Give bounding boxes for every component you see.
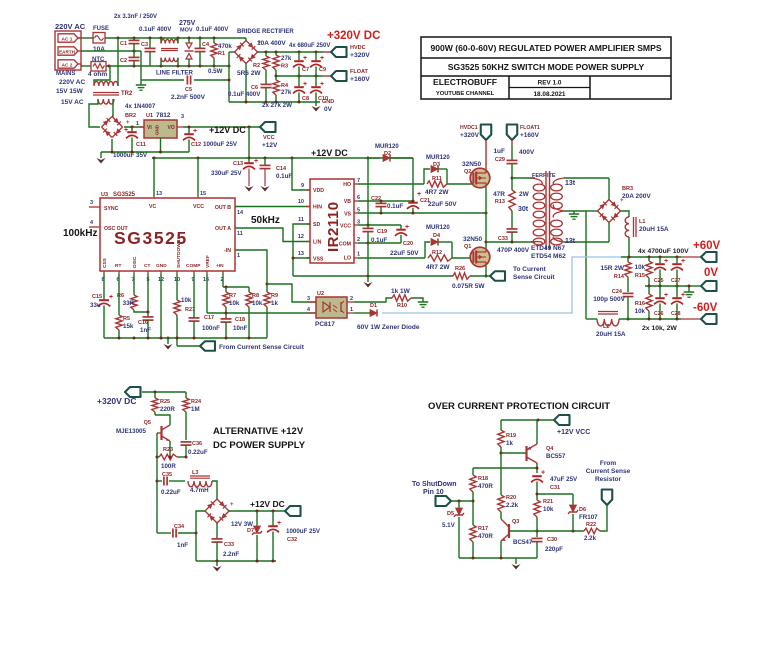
svg-text:+60V: +60V xyxy=(693,240,721,252)
svg-text:47uF 25V: 47uF 25V xyxy=(550,476,578,483)
resistor R9 1k xyxy=(266,283,269,286)
svg-text:D1: D1 xyxy=(370,303,377,309)
node pin 3 SYNC xyxy=(89,206,100,208)
wire to SG3525 VCC pin 15 xyxy=(197,158,199,196)
svg-text:+: + xyxy=(320,81,324,88)
svg-text:C12: C12 xyxy=(191,142,201,148)
svg-text:10: 10 xyxy=(298,199,304,205)
svg-text:+: + xyxy=(664,258,668,265)
svg-text:C20: C20 xyxy=(403,241,413,247)
wire VB rail xyxy=(358,200,413,202)
capacitor C19 0.1uF xyxy=(367,225,369,228)
wire feedback sense blue xyxy=(382,257,621,313)
svg-text:60V 1W Zener Diode: 60V 1W Zener Diode xyxy=(357,324,420,331)
connector FLOAT1 +160V top xyxy=(507,125,518,141)
svg-text:1uF: 1uF xyxy=(493,148,505,155)
svg-text:1000uF 35V: 1000uF 35V xyxy=(113,152,148,159)
wire BR4 bottom to C33a xyxy=(216,523,218,539)
svg-text:1k: 1k xyxy=(506,440,513,447)
wire primary bottom xyxy=(486,241,535,243)
capacitor C33 2.2nF alt xyxy=(212,538,223,540)
wire AC2 to NTC xyxy=(78,63,81,65)
svg-text:12V 3W: 12V 3W xyxy=(231,521,253,528)
svg-text:HVDC: HVDC xyxy=(350,45,366,51)
svg-text:C8: C8 xyxy=(302,96,309,102)
svg-text:OVER CURRENT PROTECTION CIRCUI: OVER CURRENT PROTECTION CIRCUIT xyxy=(428,401,610,412)
svg-text:PC817: PC817 xyxy=(315,321,335,328)
ground earth symbol xyxy=(136,84,146,86)
svg-text:+: + xyxy=(258,40,262,46)
wire BR2 output to 7812 xyxy=(124,126,144,128)
svg-text:20A 200V: 20A 200V xyxy=(622,193,651,200)
svg-text:R20: R20 xyxy=(506,495,516,501)
capacitor C10 680uF xyxy=(315,76,317,86)
svg-text:2.2k: 2.2k xyxy=(584,535,597,542)
wire +12V to IR2110 VDD xyxy=(292,158,310,190)
svg-text:R26: R26 xyxy=(455,266,465,272)
svg-text:1000uF 25V: 1000uF 25V xyxy=(286,528,321,535)
svg-text:D5: D5 xyxy=(447,511,454,517)
wire SG3525 ground rail xyxy=(104,337,267,339)
svg-text:R22: R22 xyxy=(586,522,596,528)
svg-text:R18: R18 xyxy=(478,476,488,482)
svg-text:VCC: VCC xyxy=(263,135,275,141)
capacitor C16 1nF pin5 xyxy=(147,271,149,274)
svg-text:FLOAT: FLOAT xyxy=(350,69,369,75)
inductor L2 20uH 15A xyxy=(586,318,597,320)
svg-text:VREF: VREF xyxy=(205,255,211,268)
svg-text:From Current Sense Circuit: From Current Sense Circuit xyxy=(219,344,305,351)
wire to Q1 gate xyxy=(452,257,474,259)
svg-text:Q5: Q5 xyxy=(144,420,151,426)
svg-text:MAINS: MAINS xyxy=(56,71,75,77)
svg-text:R9: R9 xyxy=(271,293,278,299)
svg-text:VC: VC xyxy=(149,204,156,210)
svg-text:C32: C32 xyxy=(287,537,297,543)
svg-text:20uH 15A: 20uH 15A xyxy=(596,331,626,338)
svg-text:U3: U3 xyxy=(101,192,108,198)
svg-text:R24: R24 xyxy=(191,399,202,405)
svg-text:0.075R 5W: 0.075R 5W xyxy=(452,283,485,290)
svg-text:R10: R10 xyxy=(397,303,407,309)
svg-text:0.1uF 400V: 0.1uF 400V xyxy=(139,26,172,33)
svg-text:C19: C19 xyxy=(377,229,387,235)
capacitor C31 47uF 25V xyxy=(532,475,542,477)
connector HVDC1 +320V top xyxy=(481,125,492,141)
capacitor C30 220pF xyxy=(532,537,543,539)
svg-text:To Current: To Current xyxy=(513,266,547,273)
svg-text:+: + xyxy=(664,292,668,299)
svg-text:LIN: LIN xyxy=(313,240,322,246)
ground arrow alt xyxy=(216,561,218,566)
svg-text:R19: R19 xyxy=(506,433,516,439)
svg-text:32N50: 32N50 xyxy=(462,161,482,168)
svg-text:CSS: CSS xyxy=(102,257,108,268)
resistor R20 2.2k xyxy=(498,495,504,512)
svg-text:3: 3 xyxy=(181,114,184,120)
resistor R24 1M xyxy=(185,392,187,398)
svg-text:220V AC: 220V AC xyxy=(59,79,85,86)
wire shutdown to divider xyxy=(451,500,473,502)
svg-text:FUSE: FUSE xyxy=(93,26,109,32)
capacitor C15 33u pin8 xyxy=(103,271,105,274)
svg-text:1: 1 xyxy=(237,253,240,259)
svg-text:13t: 13t xyxy=(565,238,576,245)
svg-text:VDD: VDD xyxy=(313,188,324,194)
svg-text:C33: C33 xyxy=(498,236,508,242)
svg-text:BR2: BR2 xyxy=(125,113,136,119)
capacitor C7 680uF xyxy=(298,52,300,60)
svg-text:C1: C1 xyxy=(120,41,127,47)
wire OCP bottom rail xyxy=(459,557,537,559)
connector 0V output xyxy=(701,281,717,291)
connector +320V DC alt input xyxy=(125,387,141,397)
resistor R8 10k xyxy=(248,287,250,292)
svg-text:9: 9 xyxy=(301,183,304,189)
svg-text:R13: R13 xyxy=(495,199,505,205)
svg-text:REV 1.0: REV 1.0 xyxy=(538,80,562,87)
svg-text:0.1uF 400V: 0.1uF 400V xyxy=(196,26,229,33)
svg-text:7812: 7812 xyxy=(156,112,171,119)
svg-text:0.1uF: 0.1uF xyxy=(276,173,292,180)
wire +12V to VCC xyxy=(367,158,369,225)
svg-text:13t: 13t xyxy=(565,180,576,187)
svg-text:C4: C4 xyxy=(202,42,210,48)
svg-text:R14: R14 xyxy=(614,274,625,280)
svg-text:C16: C16 xyxy=(138,320,148,326)
svg-text:SD: SD xyxy=(313,222,320,228)
svg-text:ETD54 M62: ETD54 M62 xyxy=(531,253,566,260)
svg-text:470R: 470R xyxy=(478,533,493,540)
svg-text:+320V DC: +320V DC xyxy=(327,30,380,42)
svg-text:0V: 0V xyxy=(704,267,718,279)
wire primary top xyxy=(512,177,535,179)
svg-text:220R: 220R xyxy=(160,406,175,413)
svg-text:11: 11 xyxy=(237,231,243,237)
svg-text:VCC: VCC xyxy=(193,204,204,210)
svg-text:R3: R3 xyxy=(281,64,288,70)
svg-text:4R7 2W: 4R7 2W xyxy=(426,264,450,271)
svg-text:C18: C18 xyxy=(235,317,245,323)
wire VCC rail xyxy=(358,224,401,226)
svg-text:+320V: +320V xyxy=(350,52,370,59)
svg-text:R16: R16 xyxy=(635,301,645,307)
svg-text:R7: R7 xyxy=(229,293,236,299)
resistor R2 5R6 2W xyxy=(263,56,269,70)
svg-text:C3: C3 xyxy=(141,42,148,48)
wire +12V from 7812 to VCC tag xyxy=(183,126,260,128)
wire SD and VSS to ground xyxy=(293,224,310,276)
resistor R17 470R xyxy=(470,525,476,542)
resistor R16 10k xyxy=(648,286,650,294)
svg-text:10k: 10k xyxy=(181,297,192,304)
svg-text:R15: R15 xyxy=(635,273,645,279)
svg-text:LINE FILTER: LINE FILTER xyxy=(156,70,194,77)
svg-text:13: 13 xyxy=(298,251,304,257)
svg-text:1M: 1M xyxy=(191,406,200,413)
svg-text:470R: 470R xyxy=(478,483,493,490)
svg-text:2: 2 xyxy=(357,237,360,243)
svg-text:HVDC1: HVDC1 xyxy=(460,125,478,131)
svg-text:0.22uF: 0.22uF xyxy=(161,489,181,496)
resistor R3 27k xyxy=(275,52,277,55)
title block xyxy=(421,37,671,99)
resistor R27 10k pin10 shutdown xyxy=(176,271,178,274)
wire VREF line to PC817 pin4 xyxy=(207,312,316,314)
ground 0V output xyxy=(688,286,690,292)
svg-text:10k: 10k xyxy=(252,300,263,307)
inductor line filter xyxy=(160,38,162,43)
ground arrow symbol xyxy=(100,152,102,158)
svg-text:R1: R1 xyxy=(218,51,225,57)
svg-text:R25: R25 xyxy=(160,399,170,405)
inductor L1 20uH 15A xyxy=(621,211,630,217)
svg-text:C14: C14 xyxy=(276,166,287,172)
wire +60V rail xyxy=(621,256,681,258)
svg-text:C22: C22 xyxy=(371,196,381,202)
svg-text:C13: C13 xyxy=(233,161,243,167)
resistor R4 27k xyxy=(275,76,277,80)
capacitor C25 4700uF xyxy=(659,257,661,263)
svg-text:27k: 27k xyxy=(281,55,292,62)
svg-text:0.22uF: 0.22uF xyxy=(188,449,208,456)
capacitor C18 10nF xyxy=(225,313,227,319)
svg-text:ALTERNATIVE +12V: ALTERNATIVE +12V xyxy=(213,426,304,437)
svg-text:275V: 275V xyxy=(179,20,196,27)
svg-text:1nF: 1nF xyxy=(140,327,151,334)
svg-text:2W: 2W xyxy=(519,191,530,198)
svg-text:5.1V: 5.1V xyxy=(442,522,456,529)
svg-text:+: + xyxy=(124,127,128,134)
svg-text:11: 11 xyxy=(298,217,304,223)
capacitor C2 3.3nF xyxy=(133,51,135,57)
wire collector node xyxy=(473,467,537,469)
connector HVDC +320V xyxy=(331,47,347,57)
wire half-bridge midpoint xyxy=(485,187,487,247)
svg-text:22uF 50V: 22uF 50V xyxy=(390,250,419,257)
wire feedback to opto pin3 xyxy=(267,284,316,302)
svg-text:27k: 27k xyxy=(281,89,292,96)
svg-text:1nF: 1nF xyxy=(177,542,188,549)
ground opto xyxy=(418,301,428,303)
connector MAINS xyxy=(55,31,81,70)
wire +12V rail xyxy=(152,157,413,159)
capacitor C5 2.2nF 500V xyxy=(141,79,184,81)
wire bridge AC left column xyxy=(228,52,230,102)
svg-text:900W (60-0-60V) REGULATED POWE: 900W (60-0-60V) REGULATED POWER AMPLIFIE… xyxy=(430,43,661,53)
wire HO to gate network xyxy=(358,183,424,185)
svg-text:C31: C31 xyxy=(550,485,560,491)
svg-text:0V: 0V xyxy=(324,106,333,113)
svg-text:DC POWER SUPPLY: DC POWER SUPPLY xyxy=(213,440,306,451)
capacitor C1 3.3nF xyxy=(133,38,135,40)
svg-text:C17: C17 xyxy=(204,315,214,321)
svg-text:4 ohm: 4 ohm xyxy=(88,71,107,78)
svg-text:0.5W: 0.5W xyxy=(208,68,223,75)
svg-text:32N50: 32N50 xyxy=(463,236,483,243)
svg-text:30t: 30t xyxy=(518,206,529,213)
svg-text:Q3: Q3 xyxy=(512,519,519,525)
wire bottom HV rail xyxy=(229,101,320,103)
capacitor C24 100p 500V xyxy=(623,292,634,294)
wire float mid rail xyxy=(276,75,323,77)
svg-text:SG3525 50KHZ SWITCH MODE POWER: SG3525 50KHZ SWITCH MODE POWER SUPPLY xyxy=(448,62,645,72)
svg-text:+12V DC: +12V DC xyxy=(311,148,348,158)
resistor R14 15R 2W xyxy=(627,257,629,262)
wire alt top rail xyxy=(142,391,186,393)
svg-text:L1: L1 xyxy=(639,219,645,225)
svg-text:C25: C25 xyxy=(654,278,664,284)
wire to Q2 gate xyxy=(447,183,474,185)
svg-text:6: 6 xyxy=(357,195,360,201)
resistor R13 47R 2W snubber xyxy=(511,177,514,180)
svg-text:+: + xyxy=(230,502,234,508)
svg-text:GND: GND xyxy=(156,263,167,269)
svg-text:1: 1 xyxy=(350,307,353,313)
resistor R7 10k xyxy=(225,287,227,292)
svg-text:1: 1 xyxy=(136,121,139,127)
connector VCC +12V xyxy=(260,122,276,132)
svg-text:R6: R6 xyxy=(117,293,124,299)
svg-text:SG3525: SG3525 xyxy=(113,192,136,198)
svg-text:+: + xyxy=(417,191,421,198)
diode D5 5.1V zener xyxy=(458,501,460,508)
connector -60V output xyxy=(701,314,717,324)
svg-text:220pF: 220pF xyxy=(545,546,563,553)
wire R21 to base node xyxy=(536,517,538,537)
svg-text:330uF 25V: 330uF 25V xyxy=(211,170,242,177)
svg-text:4x 680uF 250V: 4x 680uF 250V xyxy=(289,43,330,49)
svg-text:1k: 1k xyxy=(271,300,278,307)
svg-text:+12V DC: +12V DC xyxy=(209,125,246,135)
svg-text:0.1uF 400V: 0.1uF 400V xyxy=(228,91,261,98)
svg-text:4.7mH: 4.7mH xyxy=(190,487,209,494)
svg-text:+IN: +IN xyxy=(216,263,224,269)
ground arrow SG3525 xyxy=(167,338,169,344)
svg-text:1: 1 xyxy=(357,252,360,258)
svg-text:HO: HO xyxy=(343,182,351,188)
svg-text:18.08.2021: 18.08.2021 xyxy=(534,91,566,98)
svg-text:15V AC: 15V AC xyxy=(61,99,84,106)
capacitor C8 680uF xyxy=(298,76,300,86)
wire pin2 +IN divider xyxy=(222,271,224,274)
node pin 4 OSC OUT xyxy=(89,226,100,228)
svg-text:470k: 470k xyxy=(218,43,232,50)
ground rail below BR2 xyxy=(101,151,189,153)
svg-text:VI: VI xyxy=(147,125,152,131)
bridge rectifier BR4 12V 3W xyxy=(217,499,229,511)
svg-text:C30: C30 xyxy=(547,537,557,543)
diode D7 12V zener xyxy=(256,511,258,526)
svg-text:OUT A: OUT A xyxy=(215,226,231,232)
wire LO to gate network xyxy=(358,257,425,259)
wire +320V rail xyxy=(258,51,324,53)
wire secondary to -60V column xyxy=(586,210,598,212)
svg-text:MUR120: MUR120 xyxy=(426,155,450,161)
svg-text:0.1uF: 0.1uF xyxy=(387,203,403,210)
svg-text:400V: 400V xyxy=(519,149,535,156)
svg-text:2.2nF 500V: 2.2nF 500V xyxy=(171,94,206,101)
capacitor C17 100nF pin9 xyxy=(193,271,195,274)
svg-text:C9: C9 xyxy=(319,67,326,73)
svg-text:3: 3 xyxy=(307,296,310,302)
wire Q5 base column xyxy=(156,433,158,533)
capacitor C13 330uF 25V xyxy=(248,158,250,162)
svg-text:+: + xyxy=(681,258,685,265)
svg-text:+160V: +160V xyxy=(520,132,540,139)
wire OUT A to LIN xyxy=(235,228,310,242)
capacitor C20 22uF 50V xyxy=(400,225,402,229)
svg-text:C29: C29 xyxy=(495,157,505,163)
svg-text:FR107: FR107 xyxy=(579,514,598,521)
svg-text:10k: 10k xyxy=(635,308,646,315)
wire VS rail to midpoint xyxy=(358,212,486,214)
svg-text:+: + xyxy=(620,198,624,204)
svg-text:COMP: COMP xyxy=(186,263,201,269)
svg-text:+12V DC: +12V DC xyxy=(250,499,285,509)
svg-text:COM: COM xyxy=(339,242,351,248)
svg-text:ELECTROBUFF: ELECTROBUFF xyxy=(433,77,497,87)
wire AC1 to fuse xyxy=(78,37,94,39)
capacitor C29 1uF 400V xyxy=(511,140,513,146)
svg-text:100p 500V: 100p 500V xyxy=(593,296,625,303)
wire alt bottom rail xyxy=(196,560,276,562)
wire Q1 source to sense rail xyxy=(485,266,487,276)
svg-text:13: 13 xyxy=(156,191,162,197)
svg-text:10k: 10k xyxy=(635,264,646,271)
connector From Current Sense Circuit xyxy=(177,345,200,347)
svg-text:+: + xyxy=(254,158,258,165)
svg-text:+: + xyxy=(303,81,307,88)
wire -60V rail xyxy=(619,318,681,320)
svg-text:+: + xyxy=(405,224,409,231)
svg-text:+320V: +320V xyxy=(460,132,480,139)
svg-text:VCC: VCC xyxy=(340,224,351,230)
wire ground sense rail xyxy=(293,275,453,277)
capacitor C27 4700uF xyxy=(676,257,678,263)
wire L3 to bridge xyxy=(212,481,217,499)
wire HVDC1 to Q2 drain xyxy=(485,140,487,169)
svg-text:TR2: TR2 xyxy=(121,91,133,97)
connector FLOAT +160V xyxy=(331,71,347,81)
svg-text:33u: 33u xyxy=(90,302,101,309)
resistor R21 10k xyxy=(534,500,540,517)
svg-text:U1: U1 xyxy=(146,113,153,119)
svg-text:4R7 2W: 4R7 2W xyxy=(425,189,449,196)
wire 0V rail xyxy=(645,285,689,287)
svg-text:Sense Circuit: Sense Circuit xyxy=(513,274,555,281)
svg-text:SHUTDOWN: SHUTDOWN xyxy=(176,239,182,268)
svg-text:C28: C28 xyxy=(671,311,681,317)
svg-text:R8: R8 xyxy=(252,293,259,299)
svg-text:BC547: BC547 xyxy=(513,539,533,546)
svg-text:+: + xyxy=(277,520,281,527)
wire neutral bottom rail xyxy=(106,65,229,67)
svg-text:HIN: HIN xyxy=(313,205,322,211)
svg-text:+12V VCC: +12V VCC xyxy=(557,429,590,436)
svg-text:C15: C15 xyxy=(92,294,102,300)
capacitor C26 4700uF xyxy=(659,286,661,297)
resistor R25 220R xyxy=(154,392,156,398)
connector +12V VCC xyxy=(554,415,570,425)
svg-text:33R: 33R xyxy=(123,300,135,307)
svg-text:2x 27k 2W: 2x 27k 2W xyxy=(262,102,292,109)
svg-text:LO: LO xyxy=(344,256,351,262)
wire COM rail to ground xyxy=(358,242,401,244)
resistor R15 10k xyxy=(648,257,650,261)
svg-text:+: + xyxy=(303,55,307,62)
svg-text:BC557: BC557 xyxy=(546,453,566,460)
